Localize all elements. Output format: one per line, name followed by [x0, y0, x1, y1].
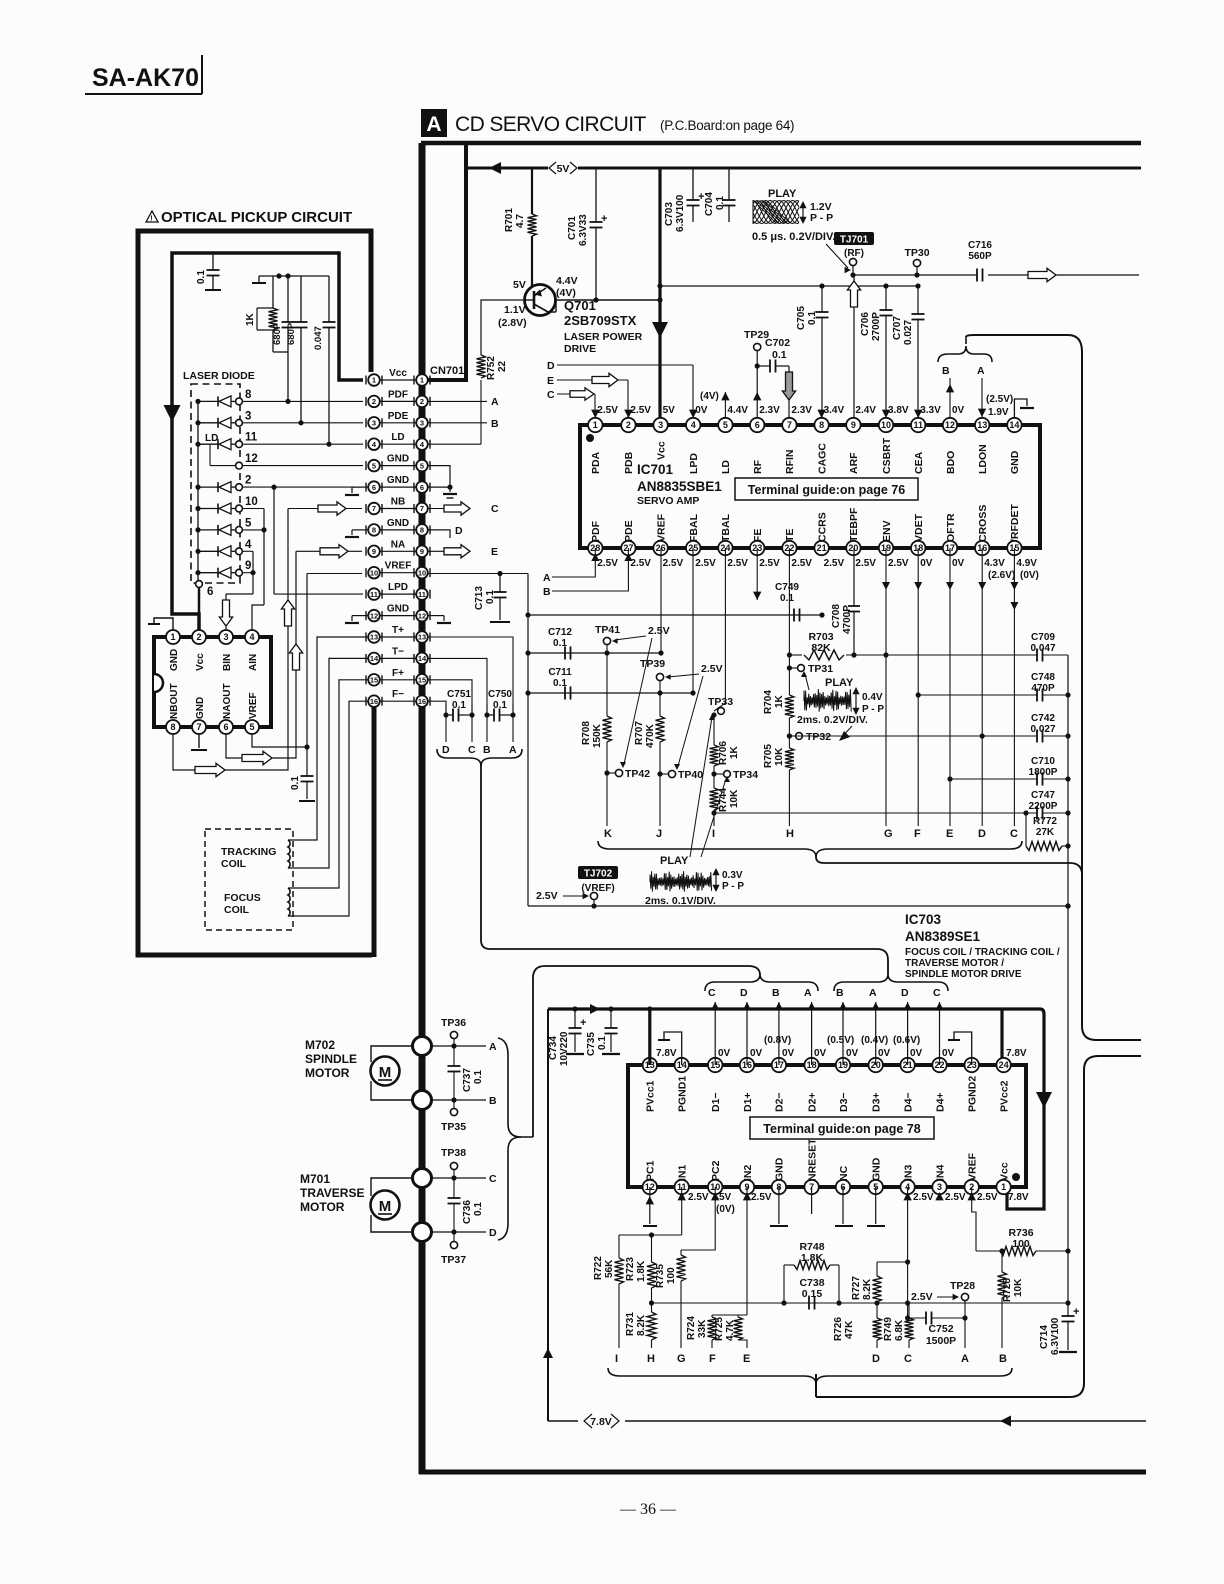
IC optical pin 1 GND	[166, 630, 180, 644]
svg-text:0V: 0V	[750, 1048, 763, 1059]
svg-text:6: 6	[223, 722, 228, 732]
svg-text:100: 100	[1012, 1238, 1030, 1250]
svg-text:4: 4	[245, 539, 252, 551]
svg-text:G: G	[884, 828, 893, 840]
svg-text:12: 12	[418, 611, 426, 620]
IC703 pin 21 D4−	[900, 1058, 914, 1072]
svg-text:2.5V: 2.5V	[536, 890, 558, 902]
svg-text:0.1: 0.1	[473, 1202, 484, 1216]
svg-text:7: 7	[787, 420, 792, 430]
wires IC701 pins 19-15 down to letters	[885, 548, 887, 826]
wire pin4 IN3 down	[907, 1187, 909, 1318]
svg-text:H: H	[786, 828, 794, 840]
svg-text:C734: C734	[548, 1036, 559, 1060]
photodiode pin 11	[195, 442, 200, 447]
svg-text:R735: R735	[655, 1264, 666, 1288]
connector CN701 row 2 PDF	[380, 400, 416, 402]
svg-text:LASER DIODE: LASER DIODE	[183, 370, 255, 382]
svg-text:13: 13	[418, 633, 426, 642]
svg-text:9: 9	[372, 547, 376, 556]
svg-text:GND: GND	[774, 1157, 786, 1181]
svg-text:2.5V: 2.5V	[597, 558, 618, 569]
svg-text:0.1: 0.1	[485, 590, 496, 604]
IC701 pin 1 PDA	[588, 418, 602, 432]
ground at IC pin7	[198, 734, 200, 748]
svg-text:C703: C703	[664, 202, 675, 226]
wire K-C bracket stem to right bus	[816, 855, 1082, 875]
wire tracking coil leads	[288, 637, 368, 840]
IC optical pin 2 Vcc	[192, 630, 206, 644]
svg-text:2.5V: 2.5V	[701, 663, 723, 675]
svg-text:C705: C705	[796, 306, 807, 330]
IC703 pin 15 D1−	[708, 1058, 722, 1072]
svg-text:8.2K: 8.2K	[636, 1314, 647, 1336]
photodiode pin 12	[236, 462, 243, 469]
svg-text:R727: R727	[851, 1276, 862, 1300]
svg-text:2.5V: 2.5V	[759, 558, 780, 569]
wire diode row 3	[243, 422, 363, 424]
svg-text:D: D	[978, 828, 986, 840]
svg-text:TJ701: TJ701	[840, 235, 869, 246]
arrow 1.2V p-p	[802, 205, 804, 220]
svg-text:14: 14	[1009, 420, 1019, 430]
svg-text:9: 9	[851, 420, 856, 430]
capacitor C704	[728, 168, 730, 200]
wire motor line B	[431, 1099, 486, 1101]
svg-text:F−: F−	[392, 689, 404, 700]
IC701 pin 10 CSBRT	[879, 418, 893, 432]
IC701 pin 26 VREF	[653, 541, 667, 555]
pin12 PC1 stub with bar	[649, 1187, 651, 1224]
wires coil cable D C B A	[445, 715, 447, 742]
svg-text:D: D	[489, 1227, 497, 1239]
IC701 pin 17 OFTR	[943, 541, 957, 555]
svg-text:PVcc1: PVcc1	[645, 1080, 657, 1112]
wire motor line D	[431, 1231, 486, 1233]
svg-text:12: 12	[370, 611, 378, 620]
IC701 pin 13 LDON	[975, 418, 989, 432]
svg-text:2.5V: 2.5V	[911, 1291, 933, 1303]
svg-text:R749: R749	[883, 1317, 894, 1341]
svg-text:GND: GND	[169, 649, 180, 671]
svg-text:0V: 0V	[846, 1048, 859, 1059]
connector CN701 row 12 GND	[380, 615, 416, 617]
resistor 1K variable	[272, 276, 274, 308]
svg-text:D: D	[740, 987, 748, 999]
capacitor C714 electrolytic	[1067, 1303, 1069, 1316]
svg-text:5V: 5V	[719, 1192, 732, 1203]
IC optical preamp box	[154, 637, 271, 727]
wire pin24 TBAL down to TP33 column	[714, 548, 725, 711]
svg-text:D2−: D2−	[774, 1092, 786, 1112]
svg-text:TP37: TP37	[441, 1254, 466, 1266]
connector CN701 row 11 LPD	[380, 593, 416, 595]
capacitor C737	[453, 1046, 455, 1066]
svg-text:2.5V: 2.5V	[791, 558, 812, 569]
connector CN701 row 8 GND	[380, 529, 416, 531]
wire pin22 TE down through R704 R705	[788, 548, 790, 695]
svg-text:LPD: LPD	[388, 582, 408, 593]
svg-text:C742: C742	[1031, 713, 1055, 724]
svg-text:NRESET: NRESET	[806, 1138, 818, 1181]
test jack TJ701 black box	[834, 232, 874, 245]
svg-text:R731: R731	[625, 1312, 636, 1336]
svg-text:2.5V: 2.5V	[630, 405, 651, 416]
svg-text:0.1: 0.1	[715, 196, 726, 210]
svg-text:CAGC: CAGC	[816, 443, 828, 474]
wire pin26 VREF down	[660, 548, 662, 653]
svg-text:GND: GND	[387, 604, 409, 615]
svg-text:PC2: PC2	[710, 1160, 722, 1181]
svg-text:0V: 0V	[942, 1048, 955, 1059]
svg-text:TE: TE	[784, 529, 796, 542]
svg-text:21: 21	[817, 543, 827, 553]
capacitor C751	[445, 705, 447, 715]
svg-text:7: 7	[420, 504, 424, 513]
svg-text:8: 8	[170, 722, 175, 732]
svg-text:(2.8V): (2.8V)	[498, 317, 527, 329]
svg-text:2.5V: 2.5V	[663, 558, 684, 569]
connector CN701 row 6 GND	[380, 486, 416, 488]
svg-text:C709: C709	[1031, 632, 1055, 643]
svg-text:0.1: 0.1	[290, 776, 301, 790]
capacitor C734 electrolytic	[572, 1006, 577, 1011]
svg-text:9: 9	[245, 560, 251, 572]
svg-text:4: 4	[691, 420, 696, 430]
svg-text:6: 6	[207, 586, 213, 598]
wire 7.8V thick rail y1009	[548, 1007, 1002, 1010]
wire PVcc1 feed	[648, 1009, 651, 1065]
IC701 pin 3 Vcc	[653, 418, 667, 432]
IC703 terminal guide box	[750, 1117, 934, 1139]
svg-text:TBAL: TBAL	[720, 513, 732, 542]
svg-text:C: C	[468, 744, 476, 756]
svg-text:TP31: TP31	[808, 663, 833, 675]
wire CN701 row13 T+ to A column	[428, 637, 513, 705]
wire ARF vertical with hollow up arrow	[853, 275, 855, 418]
svg-text:0V: 0V	[952, 558, 965, 569]
svg-text:2.3V: 2.3V	[759, 405, 780, 416]
svg-text:0.027: 0.027	[903, 320, 914, 345]
svg-text:3: 3	[658, 420, 663, 430]
svg-text:R723: R723	[625, 1257, 636, 1281]
connector CN701 row 13 T+	[380, 636, 416, 638]
svg-text:NC: NC	[838, 1165, 850, 1181]
arrows at IC701 top pins	[591, 410, 599, 418]
svg-text:T−: T−	[392, 646, 404, 657]
photodiode pin 4	[195, 549, 200, 554]
svg-text:0.15: 0.15	[802, 1288, 823, 1300]
svg-text:VREF: VREF	[248, 692, 259, 719]
wire 5V rail	[466, 167, 548, 170]
svg-text:C: C	[708, 987, 716, 999]
svg-text:LPD: LPD	[688, 453, 700, 474]
svg-text:7.8V: 7.8V	[1006, 1048, 1027, 1059]
capacitor C706 series CSBRT	[885, 286, 887, 310]
wire thick F- left column drop	[372, 705, 377, 957]
brace coil cable	[437, 749, 522, 766]
svg-text:A: A	[869, 987, 877, 999]
IC703 pin 6 NC	[836, 1180, 850, 1194]
svg-text:0V: 0V	[782, 1048, 795, 1059]
test point TP42	[604, 770, 609, 775]
svg-text:LASER POWER: LASER POWER	[564, 331, 643, 343]
IC703 pin 22 D4+	[932, 1058, 946, 1072]
svg-text:3: 3	[223, 632, 228, 642]
svg-text:FOCUS: FOCUS	[224, 892, 261, 904]
svg-text:A: A	[977, 365, 985, 377]
svg-text:AN8835SBE1: AN8835SBE1	[637, 479, 722, 494]
svg-text:4.3V: 4.3V	[984, 558, 1005, 569]
svg-text:TP41: TP41	[595, 624, 620, 636]
svg-text:G: G	[677, 1353, 686, 1365]
svg-text:CSBRT: CSBRT	[881, 437, 893, 474]
svg-text:COIL: COIL	[224, 904, 250, 916]
svg-text:Q701: Q701	[564, 298, 596, 313]
svg-text:6.8K: 6.8K	[894, 1319, 905, 1341]
svg-text:C710: C710	[1031, 756, 1055, 767]
motor M701 symbol	[371, 1191, 400, 1220]
IC701 pin 5 LD	[718, 418, 732, 432]
capacitor C707 series CEA	[917, 286, 919, 314]
svg-text:2.5V: 2.5V	[824, 558, 845, 569]
svg-text:560P: 560P	[968, 251, 992, 262]
wire CN701 row5 GND jumper	[428, 466, 450, 488]
svg-text:H: H	[647, 1353, 655, 1365]
svg-text:6.3V100: 6.3V100	[1050, 1317, 1061, 1355]
svg-text:R706: R706	[718, 741, 729, 765]
svg-text:D4+: D4+	[934, 1092, 946, 1112]
svg-text:C712: C712	[548, 627, 572, 638]
svg-text:IN4: IN4	[934, 1165, 946, 1182]
ground at IC pin1	[154, 618, 173, 630]
svg-text:D4−: D4−	[902, 1092, 914, 1112]
svg-text:E: E	[491, 546, 498, 558]
svg-text:GND: GND	[1009, 450, 1021, 474]
wire focus coil leads	[288, 680, 368, 888]
svg-text:(0.5V): (0.5V)	[827, 1035, 854, 1046]
svg-text:8: 8	[245, 389, 252, 401]
wire right enclosure vertical lower	[816, 1056, 1141, 1397]
IC701 pin 19 ENV	[879, 541, 893, 555]
svg-text:J: J	[656, 828, 662, 840]
arrow on 7.8V line	[1000, 1416, 1011, 1427]
svg-text:1K: 1K	[774, 694, 785, 708]
wire pin11 IN1 down	[681, 1187, 683, 1235]
svg-text:(0.6V): (0.6V)	[893, 1035, 920, 1046]
arrow on Vcc feed	[164, 405, 181, 422]
capacitor C708 series TEBPF	[853, 548, 855, 606]
svg-text:7.8V: 7.8V	[590, 1416, 612, 1428]
svg-text:NAOUT: NAOUT	[222, 683, 233, 719]
svg-text:10K: 10K	[729, 789, 740, 808]
svg-text:2.5V: 2.5V	[913, 1192, 934, 1203]
ground PGND2	[954, 1032, 972, 1065]
wire diode12 row link	[210, 465, 235, 467]
capacitor C703	[692, 168, 694, 200]
svg-text:5: 5	[372, 461, 376, 470]
svg-text:— 36 —: — 36 —	[619, 1501, 677, 1518]
IC701 pin 4 LPD	[686, 418, 700, 432]
IC optical pin 6 NAOUT	[219, 720, 233, 734]
svg-text:OPTICAL PICKUP CIRCUIT: OPTICAL PICKUP CIRCUIT	[161, 209, 352, 226]
IC701 pin 12 BDO	[943, 418, 957, 432]
brace coil drive C D B A	[705, 974, 818, 991]
svg-text:C747: C747	[1031, 790, 1055, 801]
svg-text:8: 8	[372, 526, 376, 535]
svg-text:10: 10	[418, 568, 426, 577]
svg-text:1: 1	[372, 376, 376, 385]
IC703 pin 16 D1+	[740, 1058, 754, 1072]
svg-text:47K: 47K	[844, 1320, 855, 1339]
svg-text:R772: R772	[1033, 816, 1057, 827]
svg-text:CROSS: CROSS	[977, 505, 989, 542]
svg-text:2.5V: 2.5V	[751, 1192, 772, 1203]
svg-text:VDET: VDET	[913, 513, 925, 542]
svg-text:1: 1	[593, 420, 598, 430]
svg-text:Vcc: Vcc	[195, 653, 206, 671]
bracket motor cable	[498, 1038, 533, 1137]
capacitor C713	[499, 574, 501, 593]
svg-text:5V: 5V	[663, 405, 676, 416]
wire CN701 row10 VREF	[307, 573, 362, 575]
wire diode row 4	[243, 550, 253, 552]
svg-text:TP28: TP28	[950, 1280, 975, 1292]
svg-text:AIN: AIN	[248, 654, 259, 671]
wire CN701 row4 LD to R752	[428, 443, 481, 445]
svg-text:PLAY: PLAY	[768, 188, 797, 200]
pointer lines to TP33 TP34	[690, 717, 712, 857]
svg-text:BIN: BIN	[222, 654, 233, 671]
resistor R726	[876, 1303, 878, 1318]
connector CN701 row 1 Vcc	[380, 379, 416, 381]
wire R701 to Q701	[531, 236, 533, 287]
IC703 pin 23 PGND2	[965, 1058, 979, 1072]
resistor R749	[905, 1318, 914, 1340]
svg-text:PLAY: PLAY	[660, 855, 689, 867]
svg-text:3.8V: 3.8V	[888, 405, 909, 416]
connector CN701 row 14 T−	[380, 657, 416, 659]
svg-text:(P.C.Board:on page 64): (P.C.Board:on page 64)	[660, 118, 794, 133]
svg-text:27K: 27K	[1036, 827, 1055, 838]
svg-text:13: 13	[370, 633, 378, 642]
svg-text:D1−: D1−	[710, 1092, 722, 1112]
resistor R752	[480, 380, 482, 444]
photodiode pin 10	[195, 506, 200, 511]
svg-text:C: C	[904, 1353, 912, 1365]
connector CN701 row 7 NB	[380, 508, 416, 510]
photodiode pin 5	[195, 527, 200, 532]
svg-text:PC1: PC1	[645, 1160, 657, 1181]
wire junction row y1235	[619, 1234, 682, 1236]
svg-text:D3−: D3−	[838, 1092, 850, 1112]
svg-text:4700P: 4700P	[842, 605, 853, 634]
svg-text:2SB709STX: 2SB709STX	[564, 313, 637, 328]
svg-text:R752: R752	[486, 356, 497, 380]
svg-text:C735: C735	[586, 1032, 597, 1056]
svg-text:C706: C706	[860, 312, 871, 336]
svg-text:PDF: PDF	[388, 389, 408, 400]
svg-text:10K: 10K	[774, 747, 785, 766]
svg-text:COIL: COIL	[221, 858, 247, 870]
svg-text:CEA: CEA	[913, 451, 925, 474]
svg-text:F+: F+	[392, 668, 404, 679]
svg-text:14: 14	[418, 654, 427, 663]
svg-text:5: 5	[249, 722, 254, 732]
svg-text:470K: 470K	[645, 723, 656, 748]
svg-text:B: B	[836, 987, 844, 999]
svg-text:K: K	[604, 828, 612, 840]
ground PGND1	[664, 1032, 682, 1065]
wire R724 R725 elbow	[712, 1314, 747, 1316]
svg-text:7.8V: 7.8V	[656, 1048, 677, 1059]
wire NBOUT route to NB row	[173, 509, 288, 771]
svg-text:C736: C736	[462, 1200, 473, 1224]
svg-text:16: 16	[370, 697, 378, 706]
capacitor C705 series CAGC	[821, 286, 823, 312]
svg-text:8: 8	[420, 526, 424, 535]
svg-text:PGND2: PGND2	[967, 1076, 979, 1112]
svg-text:680P: 680P	[286, 322, 297, 345]
svg-text:MOTOR: MOTOR	[305, 1066, 350, 1080]
IC701 pin 14 GND	[1007, 418, 1021, 432]
svg-text:14: 14	[370, 654, 379, 663]
wire BIN input from diodes 4 and 9	[252, 551, 254, 594]
svg-text:8.2K: 8.2K	[862, 1278, 873, 1300]
svg-text:7: 7	[196, 722, 201, 732]
laser diode pin 6 circle	[196, 581, 203, 588]
wire thick bottom rule	[419, 1470, 1146, 1475]
IC703 pin 13 PVcc1	[643, 1058, 657, 1072]
svg-text:Terminal guide:on page 76: Terminal guide:on page 76	[748, 483, 905, 497]
svg-text:6: 6	[755, 420, 760, 430]
svg-text:2.5V: 2.5V	[855, 558, 876, 569]
wire pin23 FE down	[756, 548, 758, 600]
IC703 pin 24 PVcc2	[996, 1058, 1010, 1072]
wire diode 2 to LPD row	[271, 485, 276, 490]
IC701 pin 22 TE	[782, 541, 796, 555]
svg-text:2.5V: 2.5V	[727, 558, 748, 569]
svg-text:6.3V100: 6.3V100	[675, 194, 686, 232]
IC701 internal pin1 dot	[586, 434, 594, 442]
wires IC703 output pins up arrows	[714, 1002, 716, 1065]
svg-text:4.7K: 4.7K	[725, 1319, 736, 1341]
ground CN701 row12 both sides	[352, 615, 368, 617]
resistor R705	[785, 748, 794, 770]
svg-text:(2.6V): (2.6V)	[988, 570, 1015, 581]
svg-text:I: I	[615, 1353, 618, 1365]
svg-text:R704: R704	[763, 690, 774, 714]
svg-text:FBAL: FBAL	[688, 513, 700, 542]
svg-text:C716: C716	[968, 240, 992, 251]
svg-text:TRAVERSE MOTOR /: TRAVERSE MOTOR /	[905, 958, 1004, 969]
svg-text:1500P: 1500P	[926, 1335, 956, 1347]
svg-text:IN2: IN2	[742, 1165, 754, 1182]
svg-text:DRIVE: DRIVE	[564, 343, 596, 355]
svg-text:C748: C748	[1031, 672, 1055, 683]
svg-text:(0.8V): (0.8V)	[764, 1035, 791, 1046]
svg-text:TJ702: TJ702	[584, 869, 613, 880]
svg-text:TP32: TP32	[806, 731, 831, 743]
svg-text:P - P: P - P	[810, 212, 833, 224]
svg-text:SPINDLE: SPINDLE	[305, 1052, 357, 1066]
svg-text:R705: R705	[763, 744, 774, 768]
svg-text:C752: C752	[928, 1323, 953, 1335]
coil block dashed box	[205, 829, 293, 930]
IC703 pin 10 PC2	[708, 1180, 722, 1194]
svg-text:TP40: TP40	[678, 769, 703, 781]
svg-text:TP39: TP39	[640, 658, 665, 670]
